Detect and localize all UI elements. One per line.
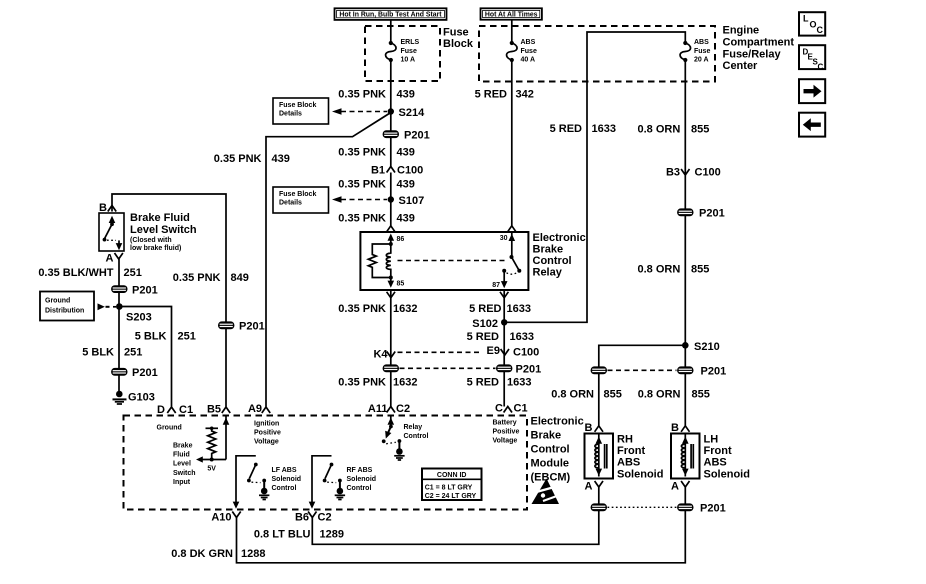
svg-text:Brake: Brake (533, 244, 564, 256)
svg-text:0.35 PNK: 0.35 PNK (338, 213, 386, 225)
svg-text:P201: P201 (701, 366, 727, 378)
connector K4 (373, 349, 395, 361)
svg-text:C: C (817, 25, 824, 35)
svg-text:1633: 1633 (507, 377, 531, 389)
relay pin 30 wire and arrow (500, 232, 515, 257)
svg-text:B: B (671, 422, 679, 434)
connector A9 (248, 403, 270, 415)
svg-text:251: 251 (178, 331, 196, 343)
svg-text:0.35 PNK: 0.35 PNK (338, 179, 386, 191)
svg-text:Fuse: Fuse (401, 48, 417, 55)
label 0.8 ORN 855 second (638, 264, 710, 276)
svg-text:K4: K4 (373, 349, 388, 361)
wire 0.35 PNK 439 third (338, 173, 415, 227)
svg-text:P201: P201 (700, 503, 726, 515)
brake fluid level switch box (99, 213, 124, 251)
feed tag: Hot At All Times (481, 8, 542, 19)
svg-text:C1: C1 (179, 404, 193, 416)
svg-text:G103: G103 (128, 392, 155, 404)
svg-text:849: 849 (231, 272, 249, 284)
wire RH A to B6 (0.8 LT BLU 1289) (254, 487, 599, 544)
svg-text:0.8 ORN: 0.8 ORN (638, 124, 681, 136)
svg-text:Control: Control (531, 444, 570, 456)
terminal A of LH solenoid (671, 481, 689, 493)
svg-text:Voltage: Voltage (493, 438, 518, 445)
terminal B of LH solenoid (671, 422, 689, 434)
svg-text:A: A (106, 253, 114, 265)
svg-text:ERLS: ERLS (401, 39, 420, 46)
svg-text:Solenoid: Solenoid (272, 476, 302, 483)
svg-text:855: 855 (692, 389, 710, 401)
label Engine Compartment Fuse/Relay Center (723, 25, 795, 73)
splice S102 (472, 318, 507, 330)
connector P201 on 849 wire (218, 321, 265, 333)
svg-text:B: B (99, 202, 107, 214)
svg-text:Relay: Relay (404, 424, 423, 431)
svg-text:Ground: Ground (157, 425, 182, 432)
connector B5 (207, 404, 230, 416)
wire ABS 40A fuse feed (511, 20, 513, 43)
svg-text:855: 855 (691, 264, 709, 276)
svg-text:0.8 ORN: 0.8 ORN (638, 264, 681, 276)
wire 5 RED 1633 relay to C (469, 290, 531, 407)
connector P201 pair bottom (591, 503, 726, 515)
LH solenoid coil (681, 434, 693, 477)
relay switch arm (502, 255, 521, 274)
svg-text:1632: 1632 (393, 377, 417, 389)
svg-text:Details: Details (279, 200, 302, 207)
svg-text:Level: Level (173, 461, 191, 468)
svg-text:C100: C100 (397, 165, 423, 177)
svg-text:251: 251 (124, 267, 142, 279)
RH solenoid box (585, 434, 614, 479)
svg-text:Positive: Positive (254, 430, 281, 437)
wire riser from S102 to ABS 20A fuse (504, 32, 685, 322)
svg-text:Hot At All Times: Hot At All Times (485, 11, 538, 18)
svg-text:P201: P201 (132, 285, 158, 297)
label Brake Fluid Level Switch Input (173, 443, 196, 486)
wire 5 RED 342 to relay pin 30 (475, 60, 534, 226)
svg-text:439: 439 (397, 179, 415, 191)
connector D C1 (157, 404, 193, 416)
svg-text:LH: LH (704, 434, 719, 446)
svg-text:0.8 ORN: 0.8 ORN (638, 389, 681, 401)
svg-text:Control: Control (347, 485, 372, 492)
svg-text:B: B (585, 422, 593, 434)
svg-text:0.35 BLK/WHT: 0.35 BLK/WHT (38, 267, 113, 279)
svg-text:C100: C100 (513, 347, 539, 359)
connector chevron into relay pin 86 (387, 226, 395, 232)
svg-text:342: 342 (516, 89, 534, 101)
splice S214 (388, 107, 425, 119)
box Ground Distribution (40, 292, 94, 321)
svg-text:0.8 DK GRN: 0.8 DK GRN (171, 548, 233, 560)
svg-text:Control: Control (404, 433, 429, 440)
relay box U1 (360, 232, 528, 290)
nav box right arrow (799, 79, 825, 103)
svg-text:855: 855 (691, 124, 709, 136)
svg-text:Front: Front (617, 445, 645, 457)
terminal A of brake switch (106, 253, 123, 265)
ESD sensitivity symbol (531, 479, 561, 505)
svg-text:0.35 PNK: 0.35 PNK (338, 147, 386, 159)
svg-text:(Closed with: (Closed with (130, 237, 172, 244)
svg-text:S210: S210 (694, 341, 720, 353)
splice S203 (116, 303, 152, 323)
svg-text:Brake Fluid: Brake Fluid (130, 212, 190, 224)
svg-text:85: 85 (397, 281, 405, 288)
svg-text:P201: P201 (239, 321, 265, 333)
svg-text:439: 439 (272, 153, 290, 165)
svg-text:low brake fluid): low brake fluid) (130, 245, 181, 252)
svg-text:O: O (810, 20, 817, 30)
connector P201 on BLK/WHT (111, 285, 158, 297)
label Electronic Brake Control Relay (533, 232, 586, 279)
svg-text:RH: RH (617, 434, 633, 446)
svg-text:C: C (818, 63, 824, 72)
svg-text:855: 855 (604, 389, 622, 401)
connector C C1 (495, 403, 528, 415)
svg-text:5 RED: 5 RED (469, 303, 501, 315)
splice S210 (682, 341, 720, 353)
svg-text:Front: Front (704, 445, 732, 457)
svg-text:5V: 5V (207, 466, 216, 473)
svg-text:RF ABS: RF ABS (347, 467, 373, 474)
dashed reference arrow from S107 (332, 196, 387, 203)
label 5 RED 1633 below S102 (467, 331, 534, 343)
label Relay Control (404, 424, 429, 440)
svg-text:A: A (671, 481, 679, 493)
svg-text:1633: 1633 (592, 123, 616, 135)
svg-text:Switch: Switch (173, 470, 196, 477)
svg-text:5 BLK: 5 BLK (135, 331, 167, 343)
svg-text:Relay: Relay (533, 267, 563, 279)
svg-text:5 RED: 5 RED (475, 89, 507, 101)
EBCM RF ABS solenoid driver (309, 456, 345, 509)
svg-text:Voltage: Voltage (254, 439, 279, 446)
nav box DESC (799, 45, 825, 71)
svg-text:C2 = 24 LT GRY: C2 = 24 LT GRY (425, 493, 477, 500)
label 0.35 PNK 439 fourth (338, 213, 415, 225)
svg-text:Ignition: Ignition (254, 421, 279, 428)
svg-text:C2: C2 (396, 403, 410, 415)
relay coil winding (386, 244, 391, 278)
relay actuating dashed link (398, 260, 508, 262)
relay pin 86 arrow (388, 234, 405, 245)
svg-text:251: 251 (124, 347, 142, 359)
svg-text:0.8 LT BLU: 0.8 LT BLU (254, 529, 311, 541)
svg-text:Block: Block (443, 38, 474, 50)
wire 0.35 PNK 1632 relay to A11 (338, 290, 417, 407)
svg-text:C: C (495, 403, 503, 415)
label Fuse Block (443, 27, 474, 51)
feed tag: Hot In Run, Bulb Test And Start (335, 8, 447, 20)
terminal A of RH solenoid (585, 481, 603, 493)
svg-text:439: 439 (397, 213, 415, 225)
svg-text:Brake: Brake (531, 430, 562, 442)
svg-text:ABS: ABS (704, 457, 727, 469)
nav box left arrow (799, 113, 825, 137)
connector A11 C2 (368, 403, 410, 415)
svg-text:LF ABS: LF ABS (272, 467, 297, 474)
svg-text:1288: 1288 (241, 548, 265, 560)
svg-text:Solenoid: Solenoid (704, 469, 750, 481)
fuse ABS 40A (507, 39, 537, 64)
svg-text:ABS: ABS (617, 457, 640, 469)
EBCM dashed box (124, 416, 528, 510)
svg-text:5 RED: 5 RED (550, 123, 582, 135)
label 0.8 ORN 855 LH (638, 389, 710, 401)
connector P201 on ORN wire (677, 208, 725, 220)
svg-text:0.8 ORN: 0.8 ORN (551, 389, 594, 401)
label RH Front ABS Solenoid (617, 434, 663, 481)
wire 0.8 ORN 855 from 20A fuse down (638, 60, 710, 345)
connector chevron into relay pin 30 (508, 226, 516, 232)
svg-text:E9: E9 (487, 345, 500, 357)
wire branch S203 to D (5 BLK 251) (119, 307, 196, 407)
svg-text:1289: 1289 (320, 529, 344, 541)
EBCM brake fluid input pull-up (196, 415, 229, 473)
svg-text:Hot In Run, Bulb Test And Star: Hot In Run, Bulb Test And Start (339, 12, 442, 19)
svg-text:Solenoid: Solenoid (347, 476, 377, 483)
EBCM relay driver (382, 415, 405, 461)
svg-text:Positive: Positive (493, 429, 520, 436)
svg-text:A10: A10 (211, 512, 231, 524)
connector chevron below relay pin 87 (500, 292, 508, 298)
svg-text:Fuse: Fuse (443, 27, 469, 39)
brake switch internals (103, 216, 123, 251)
svg-text:A11: A11 (368, 403, 388, 415)
connector B6 C2 (295, 512, 332, 524)
svg-text:30: 30 (500, 235, 508, 242)
label 5 BLK 251 main (82, 347, 142, 359)
label Ground inside EBCM (157, 425, 182, 432)
label 0.35 PNK 439 second (338, 147, 415, 159)
box Fuse Block Details (upper) (273, 98, 329, 124)
svg-text:Engine: Engine (723, 25, 760, 37)
svg-text:(EBCM): (EBCM) (531, 472, 571, 484)
svg-text:86: 86 (397, 236, 405, 243)
relay pin 87 arrow (492, 271, 507, 289)
svg-text:C1 = 8 LT GRY: C1 = 8 LT GRY (425, 484, 473, 491)
CONN ID table (422, 469, 482, 501)
svg-text:Ground: Ground (45, 298, 70, 305)
svg-text:L: L (803, 14, 809, 24)
svg-text:P201: P201 (132, 367, 158, 379)
svg-text:Battery: Battery (493, 420, 517, 427)
wire S210 branch to RH solenoid (599, 345, 686, 426)
RH solenoid coil (595, 434, 607, 477)
svg-text:Fuse Block: Fuse Block (279, 102, 316, 109)
wire LH solenoid drop (684, 345, 686, 426)
label RF ABS Solenoid Control (347, 467, 377, 492)
svg-text:1633: 1633 (507, 303, 531, 315)
terminal B of brake switch (99, 202, 116, 214)
connector P201 pair right (591, 366, 727, 378)
svg-text:0.35 PNK: 0.35 PNK (214, 153, 262, 165)
svg-text:S107: S107 (399, 195, 425, 207)
svg-text:Distribution: Distribution (45, 308, 84, 315)
relay resistor branch (368, 244, 391, 278)
fuse ABS 20A (680, 39, 710, 64)
svg-text:Compartment: Compartment (723, 37, 795, 49)
svg-text:P201: P201 (516, 364, 542, 376)
connector P201 below S214 (383, 112, 430, 167)
svg-text:0.35 PNK: 0.35 PNK (338, 377, 386, 389)
wire S214 branch to A9 (214, 113, 391, 407)
connector B1 C100 (371, 165, 423, 177)
label LH Front ABS Solenoid (704, 434, 750, 481)
svg-text:Input: Input (173, 479, 191, 486)
dashed reference arrow from S214 (332, 108, 387, 115)
svg-text:A: A (585, 481, 593, 493)
svg-text:0.35 PNK: 0.35 PNK (338, 303, 386, 315)
wire 0.35 PNK 439 from fuse to S214 (338, 60, 415, 112)
svg-text:5 RED: 5 RED (467, 377, 499, 389)
connector P201 lower left (111, 367, 158, 379)
svg-text:Electronic: Electronic (531, 416, 584, 428)
wire ERLS fuse feed (390, 20, 392, 43)
svg-text:C100: C100 (695, 167, 721, 179)
svg-text:S214: S214 (399, 107, 426, 119)
svg-text:ABS: ABS (694, 39, 709, 46)
connector chevron below relay pin 85 (387, 292, 395, 298)
svg-text:439: 439 (397, 147, 415, 159)
svg-text:Fuse: Fuse (694, 48, 710, 55)
fuse ERLS 10A (386, 39, 420, 64)
ground G103 (113, 391, 155, 404)
engine compartment fuse/relay center dashed box (479, 26, 715, 82)
svg-text:Details: Details (279, 111, 302, 118)
svg-text:P201: P201 (699, 208, 725, 220)
wire LH A to A10 (0.8 DK GRN 1288) (171, 487, 685, 563)
svg-text:87: 87 (492, 282, 500, 289)
nav box LOC (799, 12, 825, 35)
relay coil node top (389, 242, 393, 246)
svg-text:Electronic: Electronic (533, 232, 586, 244)
reference arrow to S203 (98, 303, 117, 310)
svg-text:439: 439 (397, 89, 415, 101)
label 5 RED 1633 lower (467, 377, 532, 389)
svg-text:C2: C2 (318, 512, 332, 524)
connector E9 C100 (487, 345, 540, 359)
relay coil node bottom / pin 85 arrow (388, 276, 405, 288)
label Brake Fluid Level Switch (130, 212, 197, 252)
svg-text:40 A: 40 A (521, 57, 536, 64)
wire 0.35 BLK/WHT 251 (38, 259, 142, 392)
wire brake switch B to B5 (0.35 PNK 849) (112, 194, 249, 407)
svg-text:0.35 PNK: 0.35 PNK (338, 89, 386, 101)
label LF ABS Solenoid Control (272, 467, 302, 492)
connector A10 (211, 512, 240, 524)
dashed link K4 to E9 (398, 351, 483, 353)
svg-text:1633: 1633 (510, 331, 534, 343)
terminal B of RH solenoid (585, 422, 603, 434)
svg-text:Module: Module (531, 458, 570, 470)
svg-text:B6: B6 (295, 512, 309, 524)
svg-text:Fuse/Relay: Fuse/Relay (723, 49, 782, 61)
EBCM LF ABS solenoid driver (233, 456, 270, 509)
label 0.8 ORN 855 RH (551, 389, 622, 401)
svg-text:Center: Center (723, 60, 759, 72)
svg-text:Brake: Brake (173, 443, 193, 450)
svg-text:10 A: 10 A (401, 57, 416, 64)
svg-text:A9: A9 (248, 403, 262, 415)
svg-text:Solenoid: Solenoid (617, 469, 663, 481)
connector P201 pair mid (383, 364, 542, 376)
svg-text:CONN ID: CONN ID (437, 472, 467, 479)
svg-text:5 RED: 5 RED (467, 331, 499, 343)
svg-text:C1: C1 (514, 403, 528, 415)
label Electronic Brake Control Module (EBCM) (531, 416, 584, 484)
svg-text:ABS: ABS (521, 39, 536, 46)
label Battery Positive Voltage (493, 420, 520, 445)
LH solenoid box (671, 434, 700, 479)
svg-text:Level Switch: Level Switch (130, 224, 197, 236)
svg-text:B1: B1 (371, 165, 385, 177)
splice S107 (388, 195, 425, 207)
label Ignition Positive Voltage (254, 421, 281, 446)
svg-text:Control: Control (272, 485, 297, 492)
svg-text:Fluid: Fluid (173, 452, 190, 459)
svg-text:1632: 1632 (393, 303, 417, 315)
svg-text:Fuse Block: Fuse Block (279, 191, 316, 198)
svg-text:Fuse: Fuse (521, 48, 537, 55)
svg-text:B5: B5 (207, 404, 221, 416)
svg-text:D: D (157, 404, 165, 416)
svg-text:0.35 PNK: 0.35 PNK (173, 272, 221, 284)
svg-text:5 BLK: 5 BLK (82, 347, 114, 359)
svg-text:S102: S102 (472, 318, 498, 330)
svg-text:B3: B3 (666, 167, 680, 179)
svg-text:20 A: 20 A (694, 57, 709, 64)
box Fuse Block Details (lower) (273, 187, 329, 213)
svg-text:P201: P201 (404, 130, 430, 142)
connector B3 C100 (666, 167, 721, 179)
svg-text:S203: S203 (126, 312, 152, 324)
svg-text:Control: Control (533, 255, 572, 267)
label 0.35 PNK 1632 lower (338, 377, 417, 389)
fuse block dashed box (365, 26, 440, 81)
